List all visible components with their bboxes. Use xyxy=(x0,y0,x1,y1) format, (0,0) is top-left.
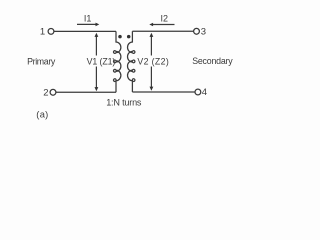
terminal 1 xyxy=(48,29,54,35)
svg-text:4: 4 xyxy=(202,87,207,98)
svg-text:V2 (Z2): V2 (Z2) xyxy=(137,56,169,66)
wire top-left xyxy=(54,30,116,32)
svg-text:Secondary: Secondary xyxy=(192,56,233,66)
svg-text:2: 2 xyxy=(43,87,48,98)
svg-text:V1 (Z1): V1 (Z1) xyxy=(87,56,116,66)
voltage arrow V1 xyxy=(95,33,99,91)
svg-text:I2: I2 xyxy=(160,13,168,23)
terminal 3 xyxy=(194,28,200,34)
wire bottom-left xyxy=(56,91,116,93)
svg-text:(a): (a) xyxy=(36,110,48,120)
current arrow I1 xyxy=(77,23,99,27)
svg-text:1:N turns: 1:N turns xyxy=(106,98,142,108)
terminal 2 xyxy=(50,89,56,95)
current arrow I2 xyxy=(149,23,174,27)
svg-text:Primary: Primary xyxy=(27,56,56,66)
svg-text:I1: I1 xyxy=(84,13,92,23)
voltage arrow V2 xyxy=(150,33,154,91)
terminal 4 xyxy=(195,89,201,95)
polarity dot secondary xyxy=(127,35,131,39)
svg-text:3: 3 xyxy=(201,27,206,38)
svg-text:1: 1 xyxy=(40,27,45,38)
secondary winding L2 xyxy=(128,31,135,92)
wire top-right xyxy=(132,30,193,32)
primary winding L1 xyxy=(113,31,120,92)
polarity dot primary xyxy=(118,35,122,39)
wire bottom-right xyxy=(132,91,195,93)
